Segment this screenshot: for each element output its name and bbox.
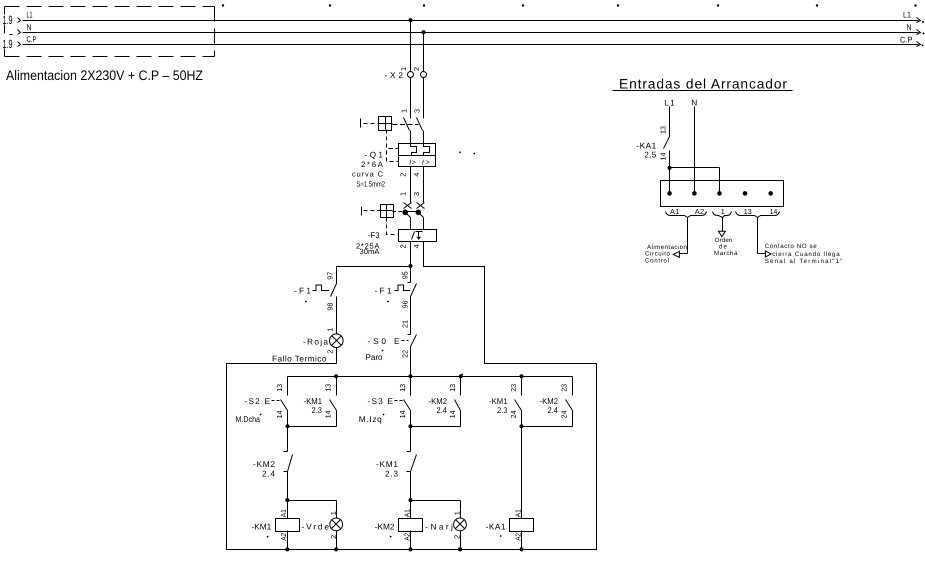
svg-text:-S2 E: -S2 E: [245, 396, 271, 406]
svg-text:13: 13: [659, 126, 668, 134]
svg-text:14: 14: [398, 410, 407, 418]
svg-text:2: 2: [453, 535, 462, 539]
svg-text:Contacto NO se: Contacto NO se: [765, 243, 818, 250]
svg-text:-F3: -F3: [368, 230, 380, 240]
svg-text:-Vrde: -Vrde: [302, 521, 330, 531]
svg-text:13: 13: [275, 384, 284, 392]
svg-text:2: 2: [326, 350, 335, 354]
svg-text:L1: L1: [27, 10, 33, 20]
svg-text:4: 4: [412, 173, 421, 177]
svg-text:22: 22: [400, 350, 409, 358]
svg-text:2: 2: [329, 535, 338, 539]
svg-text:Control: Control: [645, 257, 669, 264]
svg-text:2.3: 2.3: [385, 468, 398, 478]
svg-text:1: 1: [329, 511, 338, 515]
svg-text:A2: A2: [695, 207, 704, 216]
svg-text:C.P: C.P: [27, 34, 37, 44]
svg-text:L1: L1: [903, 10, 911, 20]
svg-text:2.3: 2.3: [497, 405, 508, 415]
svg-text:I>: I>: [422, 159, 430, 166]
svg-text:N: N: [691, 97, 697, 107]
svg-text:3: 3: [412, 109, 421, 113]
svg-text:-KA1: -KA1: [486, 521, 506, 531]
svg-text:1: 1: [721, 207, 725, 216]
svg-text:Senal al Terminal"1": Senal al Terminal"1": [765, 258, 843, 265]
svg-text:-KM1: -KM1: [376, 459, 398, 469]
svg-text:14: 14: [448, 410, 457, 418]
svg-text:2: 2: [399, 244, 408, 248]
svg-text:C.P: C.P: [900, 34, 913, 44]
svg-text:A2: A2: [402, 533, 411, 541]
svg-text:13: 13: [398, 384, 407, 392]
svg-text:1: 1: [326, 328, 335, 332]
svg-text:M.Izq: M.Izq: [359, 414, 382, 424]
svg-text:A1: A1: [402, 509, 411, 517]
svg-text:M.Dcha: M.Dcha: [236, 414, 261, 424]
svg-text:-F1: -F1: [294, 286, 311, 296]
svg-text:23: 23: [509, 384, 518, 392]
svg-text:2: 2: [412, 67, 421, 71]
svg-text:Paro: Paro: [366, 352, 383, 362]
svg-text:A2: A2: [513, 533, 522, 541]
svg-text:-S0 E: -S0 E: [368, 336, 400, 346]
svg-text:1: 1: [399, 109, 408, 113]
svg-text:13: 13: [448, 384, 457, 392]
svg-text:-KM2: -KM2: [375, 521, 395, 531]
svg-text:-Roja: -Roja: [303, 336, 328, 346]
svg-text:1.9: 1.9: [3, 13, 13, 27]
svg-text:95: 95: [400, 271, 409, 279]
svg-text:A1: A1: [279, 509, 288, 517]
svg-text:Fallo Termico: Fallo Termico: [272, 354, 327, 364]
svg-text:13: 13: [323, 384, 332, 392]
svg-text:I>: I>: [409, 159, 416, 166]
svg-text:14: 14: [659, 153, 668, 161]
svg-text:-F1: -F1: [375, 286, 392, 296]
svg-text:2.4: 2.4: [548, 405, 559, 415]
svg-text:A1: A1: [670, 207, 679, 216]
svg-text:1.9: 1.9: [3, 37, 13, 51]
svg-text:Marcha: Marcha: [714, 250, 738, 257]
svg-text:14: 14: [275, 410, 284, 418]
svg-text:2.3: 2.3: [312, 405, 323, 415]
svg-text:98: 98: [325, 303, 334, 311]
svg-text:30mA: 30mA: [360, 247, 381, 256]
svg-text:2.4: 2.4: [262, 468, 275, 478]
svg-text:2*6A: 2*6A: [361, 160, 384, 169]
svg-text:3: 3: [412, 192, 421, 196]
svg-text:A2: A2: [279, 533, 288, 541]
svg-text:1: 1: [453, 511, 462, 515]
svg-text:-KM2: -KM2: [253, 459, 275, 469]
svg-text:13: 13: [744, 207, 752, 216]
svg-text:21: 21: [400, 320, 409, 328]
svg-text:24: 24: [509, 410, 518, 418]
svg-text:S=1.5mm2: S=1.5mm2: [357, 180, 386, 189]
svg-text:L1: L1: [664, 97, 675, 107]
svg-text:14: 14: [770, 207, 778, 216]
svg-text:23: 23: [559, 384, 568, 392]
svg-text:24: 24: [559, 410, 568, 418]
svg-text:A1: A1: [513, 509, 522, 517]
svg-text:96: 96: [400, 301, 409, 309]
svg-text:2.5: 2.5: [644, 149, 656, 159]
svg-text:N: N: [27, 22, 32, 32]
svg-text:Entradas del Arrancador: Entradas del Arrancador: [619, 76, 787, 91]
svg-text:1: 1: [399, 192, 408, 196]
svg-text:4: 4: [412, 244, 421, 248]
svg-text:2: 2: [399, 173, 408, 177]
svg-text:14: 14: [323, 410, 332, 418]
svg-text:97: 97: [325, 272, 334, 280]
svg-text:curva C: curva C: [352, 169, 384, 178]
svg-text:Alimentacion 2X230V + C.P – 50: Alimentacion 2X230V + C.P – 50HZ: [6, 68, 203, 83]
svg-text:1: 1: [399, 67, 408, 71]
svg-text:-S3 E: -S3 E: [368, 396, 394, 406]
svg-text:N: N: [907, 22, 912, 32]
svg-text:2.4: 2.4: [437, 405, 448, 415]
svg-text:-KM1: -KM1: [252, 521, 272, 531]
